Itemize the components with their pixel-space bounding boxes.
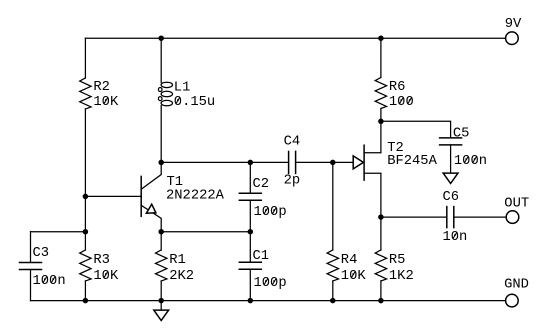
wire ground stub below rail — [160, 301, 162, 311]
wire R5 top lead — [380, 217, 382, 250]
svg-text:L1: L1 — [174, 80, 191, 95]
wire R1 top lead — [160, 232, 162, 250]
svg-text:100p: 100p — [254, 205, 287, 220]
capacitor C2 — [239, 193, 261, 200]
svg-text:R3: R3 — [93, 253, 110, 268]
junction dot collector node — [158, 160, 164, 166]
junction dot C2 top node — [248, 160, 254, 166]
svg-text:0.15u: 0.15u — [174, 95, 215, 110]
svg-text:2K2: 2K2 — [169, 269, 194, 284]
junction dot bottom rail C1 — [248, 298, 254, 304]
wire L1 top lead — [160, 38, 162, 82]
wire R5 bottom lead — [380, 281, 382, 301]
resistor R1 — [156, 250, 167, 281]
junction dot emitter node — [158, 229, 164, 235]
junction dot bottom rail R3 — [83, 298, 89, 304]
capacitor C4 — [289, 151, 296, 173]
svg-text:10K: 10K — [93, 269, 119, 284]
terminal 9V — [506, 32, 519, 45]
wire C1 bottom lead — [249, 269, 251, 300]
wire drain node to C5 — [381, 121, 451, 138]
wire collector node to C4 left plate — [161, 161, 288, 163]
svg-text:R4: R4 — [341, 253, 358, 268]
slashed zero marks on value labels — [43, 97, 477, 284]
svg-text:R5: R5 — [389, 253, 406, 268]
svg-text:10n: 10n — [443, 230, 468, 245]
wire left column R2 top lead — [84, 38, 86, 78]
resistor R5 — [375, 250, 386, 281]
svg-text:C5: C5 — [453, 127, 470, 142]
wire base node to T1 base — [85, 195, 141, 197]
svg-text:C3: C3 — [33, 246, 50, 261]
wire C3 top lead — [30, 232, 32, 263]
ground symbol below R1 — [154, 310, 169, 320]
svg-text:100n: 100n — [33, 274, 66, 289]
wire C2 bottom lead — [249, 200, 251, 231]
ground symbol below C5 — [443, 173, 458, 183]
wire left column R2 bottom to R3 top — [84, 109, 86, 250]
wire base column to C3 branch — [31, 231, 86, 233]
resistor R2 — [80, 78, 91, 109]
svg-text:2p: 2p — [284, 174, 301, 189]
wire T2 drain lead — [364, 121, 381, 152]
junction dot top rail R6 — [378, 35, 384, 41]
junction dot top rail L1 — [158, 35, 164, 41]
svg-text:R1: R1 — [169, 253, 186, 268]
junction dot base node — [83, 194, 89, 200]
capacitor C3 — [20, 263, 42, 270]
svg-text:GND: GND — [504, 278, 529, 293]
wire R6 top lead — [380, 38, 382, 77]
svg-text:10K: 10K — [341, 269, 367, 284]
svg-text:C2: C2 — [253, 177, 270, 192]
wire C2 top lead — [249, 162, 251, 193]
junction dot drain node — [378, 119, 384, 125]
capacitor C6 — [447, 207, 454, 228]
capacitor C1 — [239, 262, 261, 269]
wire top rail 9V — [85, 37, 505, 39]
wire R1 bottom lead — [160, 281, 162, 301]
resistor R4 — [327, 250, 338, 281]
transistor T1 2N2222A — [141, 162, 161, 231]
junction dot C3 node — [83, 229, 89, 235]
junction dot source node — [378, 214, 384, 220]
svg-text:R6: R6 — [389, 80, 406, 95]
wire R6 bottom to drain node — [380, 109, 382, 122]
resistor R3 — [80, 250, 91, 281]
wire source node to C6 left plate — [381, 216, 447, 218]
wire C1 top lead — [249, 232, 251, 263]
resistor R6 — [375, 78, 386, 109]
inductor L1 — [158, 82, 172, 106]
svg-text:2N2222A: 2N2222A — [166, 188, 225, 203]
wire C6 right plate to OUT terminal — [454, 216, 506, 218]
wire emitter node row — [161, 231, 250, 233]
wire L1 bottom lead — [160, 106, 162, 163]
wire T2 source lead — [364, 173, 381, 217]
transistor T2 BF245A — [353, 145, 364, 180]
svg-text:OUT: OUT — [504, 197, 529, 212]
wire bottom rail GND — [31, 300, 506, 302]
wire C3 bottom lead — [30, 270, 32, 301]
junction dot bottom rail R1 — [158, 298, 164, 304]
capacitor C5 — [440, 138, 462, 145]
svg-text:C4: C4 — [284, 135, 301, 150]
wire R4 top lead from gate node — [332, 162, 334, 250]
svg-text:100n: 100n — [454, 154, 487, 169]
wire R4 bottom lead — [332, 281, 334, 301]
svg-text:C1: C1 — [253, 249, 270, 264]
svg-text:100: 100 — [389, 95, 414, 110]
wire R4 node to T2 gate — [333, 161, 353, 163]
svg-text:100p: 100p — [254, 276, 287, 291]
svg-text:1K2: 1K2 — [389, 269, 414, 284]
svg-text:9V: 9V — [505, 17, 522, 32]
terminal GND — [506, 294, 519, 307]
junction dot bottom rail R4 — [330, 298, 336, 304]
svg-text:C6: C6 — [443, 190, 460, 205]
wire C4 right plate to R4 node — [296, 161, 333, 163]
junction dot bottom rail R5 — [378, 298, 384, 304]
svg-text:BF245A: BF245A — [387, 154, 437, 169]
junction dot C2 C1 node — [248, 229, 254, 235]
svg-text:10K: 10K — [93, 95, 119, 110]
junction dot gate R4 node — [330, 160, 336, 166]
terminal OUT — [506, 211, 519, 224]
svg-text:R2: R2 — [93, 80, 110, 95]
wire R3 bottom lead — [84, 281, 86, 301]
wire C5 bottom lead to ground — [450, 145, 452, 173]
